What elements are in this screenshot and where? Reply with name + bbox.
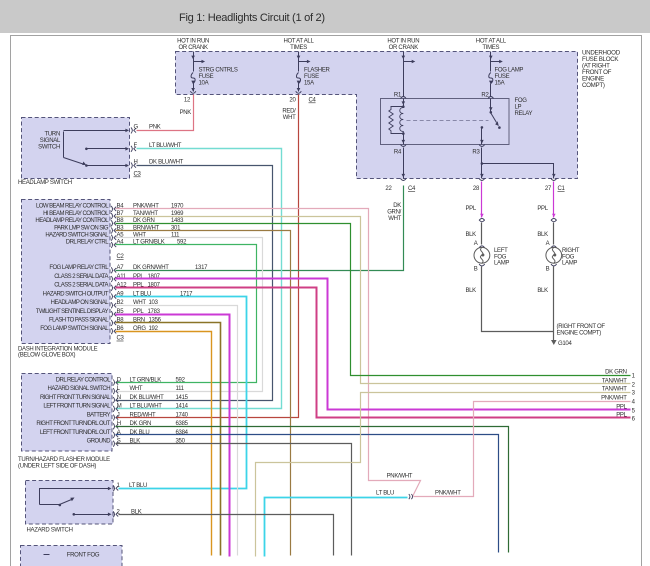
- DIM pin B7 HI BEAM RELAY CONTROL: [43, 211, 184, 219]
- svg-text:A: A: [474, 241, 478, 247]
- svg-text:STRG CNTRLS: STRG CNTRLS: [199, 68, 238, 74]
- right fog lamp pin A: [546, 241, 557, 248]
- flasher pin N RIGHT FRONT TURN SIGNAL: [40, 395, 189, 403]
- DIM connector C2: [117, 254, 125, 260]
- svg-text:FLASH TO PASS SIGNAL: FLASH TO PASS SIGNAL: [49, 318, 109, 324]
- svg-text:PNK/WHT: PNK/WHT: [601, 396, 627, 402]
- svg-text:1740: 1740: [176, 412, 189, 418]
- svg-text:G104: G104: [558, 341, 572, 347]
- pin 27 C1: [545, 179, 566, 193]
- svg-text:LT BLU/WHT: LT BLU/WHT: [149, 143, 182, 149]
- DIM pin B8 HEADLAMP RELAY CONTROL: [35, 218, 184, 226]
- hazard switch box: [26, 481, 114, 525]
- wire BRN/WHT 301 DIM B3 down: [116, 231, 291, 556]
- svg-text:LEFT FRONT TURN/DRL OUT: LEFT FRONT TURN/DRL OUT: [40, 430, 111, 436]
- svg-text:Fig 1: Headlights Circuit (1 o: Fig 1: Headlights Circuit (1 of 2): [179, 12, 325, 24]
- svg-text:C4: C4: [408, 186, 416, 192]
- wire WHT 103 DIM B2 down: [116, 306, 238, 556]
- svg-text:LT BLU: LT BLU: [376, 491, 394, 497]
- svg-text:BLK: BLK: [465, 288, 476, 294]
- headlamp switch pin H: [131, 160, 138, 169]
- svg-text:FOG: FOG: [494, 254, 507, 260]
- svg-text:PPL: PPL: [465, 206, 476, 212]
- svg-text:C1: C1: [558, 186, 566, 192]
- wire LT BLU 1717 DIM A9 to hazard switch 1: [116, 297, 247, 489]
- svg-text:TWILIGHT SENTINEL DISPLAY: TWILIGHT SENTINEL DISPLAY: [36, 309, 109, 315]
- svg-text:DK BLU/WHT: DK BLU/WHT: [130, 395, 165, 401]
- hazard switch contacts: [40, 487, 112, 516]
- svg-text:FOG LAMP: FOG LAMP: [495, 68, 524, 74]
- wire BLK right fog lamp to G104: [537, 267, 553, 341]
- svg-text:FUSE: FUSE: [199, 74, 214, 80]
- svg-text:OR CRANK: OR CRANK: [178, 45, 208, 51]
- svg-text:27: 27: [545, 186, 552, 192]
- fuse F3 FOG LAMP 15A: [489, 68, 524, 97]
- svg-text:DRL RELAY CONTROL: DRL RELAY CONTROL: [56, 377, 111, 383]
- wire relay R4 to pin 22: [402, 148, 406, 179]
- svg-text:28: 28: [473, 186, 480, 192]
- svg-text:DK GRN/WHT: DK GRN/WHT: [133, 265, 169, 271]
- svg-text:CLASS 2 SERIAL DATA: CLASS 2 SERIAL DATA: [54, 274, 108, 280]
- splice S1: [409, 494, 413, 499]
- svg-text:PARK LMP SW ON SIG: PARK LMP SW ON SIG: [54, 225, 109, 231]
- svg-text:PPL: PPL: [616, 404, 627, 410]
- svg-text:TURN: TURN: [45, 132, 60, 138]
- wire LT BLU to splice: [265, 491, 408, 557]
- svg-text:1414: 1414: [176, 404, 189, 410]
- wire BLK right fog lamp feed: [537, 223, 553, 245]
- wire DK GRN 1483 DIM B8 to connector 1: [116, 224, 631, 376]
- svg-text:M: M: [117, 404, 122, 410]
- hazard switch label: [27, 528, 73, 534]
- svg-text:LT BLU: LT BLU: [129, 483, 147, 489]
- wire WHT 111 DIM A5 to flasher L: [116, 238, 263, 392]
- svg-text:HAZARD SWITCH SIGNAL: HAZARD SWITCH SIGNAL: [45, 233, 109, 239]
- wire DK GRN/WHT pin 22 to DIM A7: [116, 186, 404, 271]
- headlamp switch pin G: [131, 125, 139, 134]
- svg-text:GROUND: GROUND: [87, 439, 112, 445]
- left fog lamp pin B: [474, 264, 485, 273]
- svg-text:H: H: [134, 160, 138, 166]
- wire PNK/WHT 1970 DIM B4 to splice: [116, 209, 421, 497]
- svg-text:R4: R4: [394, 150, 402, 156]
- svg-text:TIMES: TIMES: [290, 45, 307, 51]
- flasher pin S GROUND: [87, 439, 186, 447]
- wire ORG 192 DIM B6 down: [116, 332, 212, 556]
- svg-text:C3: C3: [117, 336, 125, 342]
- svg-text:20: 20: [289, 98, 296, 104]
- svg-text:B: B: [546, 267, 550, 273]
- inline connector left fog lamp: [479, 218, 485, 221]
- svg-text:(RIGHT FRONT OF: (RIGHT FRONT OF: [557, 324, 606, 330]
- svg-text:GRN/: GRN/: [387, 210, 401, 216]
- svg-text:TIMES: TIMES: [482, 45, 499, 51]
- relay pin R3: [472, 145, 484, 156]
- svg-text:FOG: FOG: [515, 98, 528, 104]
- svg-text:TURN/HAZARD FLASHER MODULE: TURN/HAZARD FLASHER MODULE: [18, 457, 110, 463]
- svg-text:LOW BEAM RELAY CONTROL: LOW BEAM RELAY CONTROL: [36, 204, 109, 210]
- wire feed into FLASHER fuse: [297, 52, 311, 72]
- svg-text:LT GRN/BLK: LT GRN/BLK: [130, 377, 162, 383]
- relay actuator dashed link: [407, 120, 489, 122]
- svg-text:HOT AT ALL: HOT AT ALL: [283, 39, 314, 45]
- svg-text:DK: DK: [393, 203, 401, 209]
- DIM pin B2 HEADLAMP ON SIGNAL: [51, 300, 159, 308]
- pin 20 C4: [289, 88, 316, 104]
- svg-text:LP: LP: [515, 105, 522, 111]
- lamp LEFT FOG LAMP: [474, 247, 509, 266]
- svg-text:1317: 1317: [195, 265, 208, 271]
- wire BLK hazard switch 2 down: [119, 510, 334, 556]
- front fog switch fragment: [44, 554, 50, 556]
- wire PPL 1807 DIM A12 to connector 6: [116, 288, 631, 418]
- wire BLK left fog lamp ground run: [465, 267, 553, 332]
- svg-text:J: J: [117, 412, 120, 418]
- relay switch: [480, 99, 501, 145]
- svg-text:N: N: [117, 395, 121, 401]
- svg-text:LAMP: LAMP: [494, 261, 509, 267]
- wire TAN/WHT to connector 3: [256, 393, 631, 557]
- svg-text:R2: R2: [481, 93, 489, 99]
- hazard switch pin 2: [113, 510, 120, 518]
- headlamp switch box: [22, 118, 130, 179]
- svg-text:PPL: PPL: [616, 412, 627, 418]
- svg-text:PNK: PNK: [180, 110, 192, 116]
- svg-text:DASH INTEGRATION MODULE: DASH INTEGRATION MODULE: [18, 346, 98, 352]
- headlamp switch label: [18, 180, 72, 186]
- fuse F1 STRG CNTRLS 10A: [191, 68, 238, 92]
- DIM pin B3 PARK LMP SW ON SIG: [54, 225, 181, 233]
- svg-text:C3: C3: [134, 172, 142, 178]
- left fog lamp pin A: [474, 241, 485, 248]
- wire LT GRN/BLK 592 DIM A4 to flasher D: [116, 245, 257, 383]
- DIM connector C3: [117, 336, 125, 342]
- relay pin R4: [394, 145, 406, 156]
- DIM pin B8 FLASH TO PASS SIGNAL: [49, 318, 162, 326]
- lamp RIGHT FOG LAMP: [546, 247, 580, 266]
- pin 22 C4: [385, 179, 416, 193]
- connector row 4 PNK/WHT: [601, 396, 635, 406]
- svg-text:DK GRN: DK GRN: [605, 370, 627, 376]
- turn/hazard flasher module box: [22, 374, 113, 452]
- wire PNK fuse 12 to headlamp switch G: [137, 95, 194, 131]
- relay coil K1: [389, 99, 405, 145]
- svg-text:FOG LAMP SWITCH SIGNAL: FOG LAMP SWITCH SIGNAL: [40, 326, 109, 332]
- svg-text:HAZARD SWITCH: HAZARD SWITCH: [27, 528, 73, 534]
- wire PPL 1783 DIM B5 down: [116, 315, 230, 557]
- svg-text:BLK: BLK: [131, 510, 142, 516]
- svg-text:RIGHT FRONT TURN SIGNAL: RIGHT FRONT TURN SIGNAL: [40, 395, 111, 401]
- svg-text:10A: 10A: [199, 81, 209, 87]
- node HOT IN RUN OR CRANK (left): [177, 39, 209, 52]
- svg-text:B: B: [474, 267, 478, 273]
- headlamp switch pin F: [131, 143, 138, 152]
- svg-text:LEFT: LEFT: [494, 248, 508, 254]
- svg-text:LEFT FRONT TURN SIGNAL: LEFT FRONT TURN SIGNAL: [43, 404, 111, 410]
- hazard switch pin 1: [113, 483, 120, 491]
- flasher pin M LEFT FRONT TURN SIGNAL: [43, 404, 188, 412]
- wire label PNK at G: [149, 125, 161, 131]
- svg-text:BATTERY: BATTERY: [87, 412, 111, 418]
- svg-text:111: 111: [176, 386, 185, 392]
- svg-text:BLK: BLK: [537, 288, 548, 294]
- wire BLK left fog lamp feed: [465, 223, 481, 245]
- svg-text:CLASS 2 SERIAL DATA: CLASS 2 SERIAL DATA: [54, 283, 108, 289]
- svg-text:PNK: PNK: [149, 125, 161, 131]
- svg-text:WHT: WHT: [388, 216, 401, 222]
- turn/hazard flasher module label: [18, 457, 110, 470]
- svg-text:(UNDER LEFT SIDE OF DASH): (UNDER LEFT SIDE OF DASH): [18, 464, 96, 470]
- wire PNK/WHT splice to connector 4: [387, 402, 631, 497]
- ground G104: [551, 324, 605, 347]
- svg-text:HEADLAMP ON SIGNAL: HEADLAMP ON SIGNAL: [51, 300, 110, 306]
- node HOT IN RUN OR CRANK (right): [387, 39, 419, 52]
- svg-text:HEADLAMP RELAY CONTROL: HEADLAMP RELAY CONTROL: [35, 218, 109, 224]
- pin 12: [184, 88, 196, 104]
- pin 28: [473, 179, 485, 193]
- flasher pin H RIGHT FRONT TURN/DRL OUT: [36, 421, 188, 429]
- relay U1 FOG LP RELAY box: [381, 98, 533, 145]
- headlamp switch connector C3: [134, 172, 142, 178]
- wire feed into STRG CNTRLS fuse: [191, 52, 205, 72]
- flasher pin D DRL RELAY CONTROL: [56, 377, 186, 385]
- svg-text:FOG LAMP RELAY CTRL: FOG LAMP RELAY CTRL: [49, 265, 109, 271]
- svg-text:RIGHT: RIGHT: [562, 248, 580, 254]
- svg-text:BLK: BLK: [465, 232, 476, 238]
- dash integration module label: [18, 346, 98, 358]
- svg-text:C2: C2: [117, 254, 125, 260]
- DIM pin A5 HAZARD SWITCH SIGNAL: [45, 233, 180, 241]
- svg-text:HOT IN RUN: HOT IN RUN: [177, 39, 209, 45]
- svg-text:OR CRANK: OR CRANK: [389, 45, 419, 51]
- svg-text:PNK/WHT: PNK/WHT: [435, 491, 461, 497]
- svg-text:SWITCH: SWITCH: [38, 145, 60, 151]
- svg-text:G: G: [134, 125, 139, 131]
- svg-text:RED/WHT: RED/WHT: [130, 412, 157, 418]
- inline connector right fog lamp: [551, 218, 557, 221]
- svg-text:FUSE: FUSE: [304, 74, 319, 80]
- svg-text:TAN/WHT: TAN/WHT: [602, 378, 627, 384]
- wire feed into FOG LAMP fuse: [489, 52, 503, 72]
- wire label LT BLU hazard: [129, 483, 147, 489]
- wire DK GRN 6385 flasher H down: [116, 427, 509, 553]
- connector row 2 TAN/WHT: [602, 378, 636, 388]
- svg-text:LT BLU/WHT: LT BLU/WHT: [130, 404, 163, 410]
- svg-text:22: 22: [385, 186, 392, 192]
- DIM pin B5 TWILIGHT SENTINEL DISPLAY: [36, 309, 161, 317]
- svg-text:FRONT FOG: FRONT FOG: [67, 553, 100, 559]
- svg-text:DRL RELAY CTRL: DRL RELAY CTRL: [66, 240, 109, 246]
- relay pin R2: [481, 93, 493, 99]
- svg-text:HI BEAM RELAY CONTROL: HI BEAM RELAY CONTROL: [43, 211, 109, 217]
- svg-text:HAZARD SIGNAL SWITCH: HAZARD SIGNAL SWITCH: [48, 386, 111, 392]
- svg-text:BLK: BLK: [537, 232, 548, 238]
- connector row 6 PPL: [616, 412, 635, 422]
- svg-text:HOT AT ALL: HOT AT ALL: [476, 39, 507, 45]
- DIM pin A9 HAZARD SWITCH OUTPUT: [43, 291, 193, 299]
- wire PPL to right fog lamp: [537, 182, 555, 218]
- svg-text:FUSE: FUSE: [495, 74, 510, 80]
- wire BRN 1356 DIM B8 down: [116, 323, 221, 556]
- svg-text:SIGNAL: SIGNAL: [40, 138, 61, 144]
- svg-text:DK BLU/WHT: DK BLU/WHT: [149, 160, 184, 166]
- dash integration module box: [22, 200, 111, 344]
- svg-text:592: 592: [176, 377, 186, 383]
- wire PPL 1807 DIM A11 to connector 5: [116, 279, 631, 410]
- svg-text:RELAY: RELAY: [515, 111, 533, 117]
- svg-text:WHT: WHT: [283, 115, 296, 121]
- relay pin R1: [394, 93, 406, 99]
- svg-text:RED/: RED/: [282, 109, 296, 115]
- DIM pin A4 DRL RELAY CTRL: [66, 240, 187, 248]
- svg-text:COMPT): COMPT): [582, 82, 605, 89]
- wire TAN/WHT 1969 DIM B7 to connector 2: [116, 217, 631, 384]
- flasher pin J BATTERY: [87, 412, 189, 420]
- svg-text:R3: R3: [472, 150, 480, 156]
- svg-text:HAZARD SWITCH OUTPUT: HAZARD SWITCH OUTPUT: [43, 291, 109, 297]
- DIM pin B6 FOG LAMP SWITCH SIGNAL: [40, 326, 158, 334]
- DIM pin A12 CLASS 2 SERIAL DATA: [54, 283, 160, 291]
- svg-text:FOG: FOG: [562, 254, 575, 260]
- svg-text:15A: 15A: [304, 81, 314, 87]
- wire RED/WHT fuse 20 to flasher J: [116, 95, 299, 418]
- DIM pin A11 CLASS 2 SERIAL DATA: [54, 274, 160, 282]
- svg-text:TAN/WHT: TAN/WHT: [602, 387, 627, 393]
- wire DK BLU 6384 flasher A down: [116, 435, 499, 553]
- DIM pin B4 LOW BEAM RELAY CONTROL: [36, 204, 184, 212]
- headlamp switch contacts: [64, 129, 130, 168]
- svg-text:15A: 15A: [495, 81, 505, 87]
- svg-text:WHT: WHT: [130, 386, 143, 392]
- svg-text:(BELOW GLOVE BOX): (BELOW GLOVE BOX): [18, 353, 76, 359]
- wire DK BLU/WHT headlamp H to flasher N: [116, 160, 273, 401]
- svg-text:C4: C4: [309, 98, 317, 104]
- svg-text:LAMP: LAMP: [562, 261, 577, 267]
- underhood fuse block label: [582, 50, 621, 90]
- svg-text:PPL: PPL: [537, 206, 548, 212]
- svg-text:HEADLAMP SWITCH: HEADLAMP SWITCH: [18, 180, 72, 186]
- front fog module box: [21, 546, 123, 566]
- underhood fuse block: [176, 52, 578, 179]
- connector row 3 TAN/WHT: [602, 387, 636, 397]
- svg-text:12: 12: [184, 98, 191, 104]
- svg-text:HOT IN RUN: HOT IN RUN: [387, 39, 419, 45]
- wire PPL to left fog lamp: [465, 182, 483, 218]
- node HOT AT ALL TIMES (left): [283, 39, 314, 52]
- wire feed to relay pin R1: [402, 52, 416, 97]
- svg-text:ENGINE COMPT): ENGINE COMPT): [557, 330, 602, 336]
- fuse F2 FLASHER 15A: [296, 68, 330, 92]
- svg-text:FLASHER: FLASHER: [304, 68, 331, 74]
- connector row 1 DK GRN: [605, 370, 635, 380]
- svg-text:A7: A7: [117, 265, 125, 271]
- node HOT AT ALL TIMES (right): [476, 39, 507, 52]
- connector row 5 PPL: [616, 404, 635, 414]
- wire BLK 350 flasher S down: [116, 444, 352, 556]
- title bar: [0, 0, 650, 33]
- wire relay R3 to pin 28 and branch to pin 27: [480, 148, 555, 179]
- flasher pin A LEFT FRONT TURN/DRL OUT: [40, 430, 189, 438]
- svg-text:RIGHT FRONT TURN/DRL OUT: RIGHT FRONT TURN/DRL OUT: [36, 421, 110, 427]
- svg-text:A: A: [546, 241, 550, 247]
- flasher pin L HAZARD SIGNAL SWITCH: [48, 386, 185, 394]
- svg-text:1415: 1415: [176, 395, 189, 401]
- svg-text:R1: R1: [394, 93, 402, 99]
- right fog lamp pin B: [546, 264, 557, 273]
- wire LT BLU/WHT headlamp F to flasher M: [116, 143, 282, 409]
- svg-text:PNK/WHT: PNK/WHT: [387, 473, 413, 479]
- DIM pin A7 FOG LAMP RELAY CTRL: [49, 265, 208, 273]
